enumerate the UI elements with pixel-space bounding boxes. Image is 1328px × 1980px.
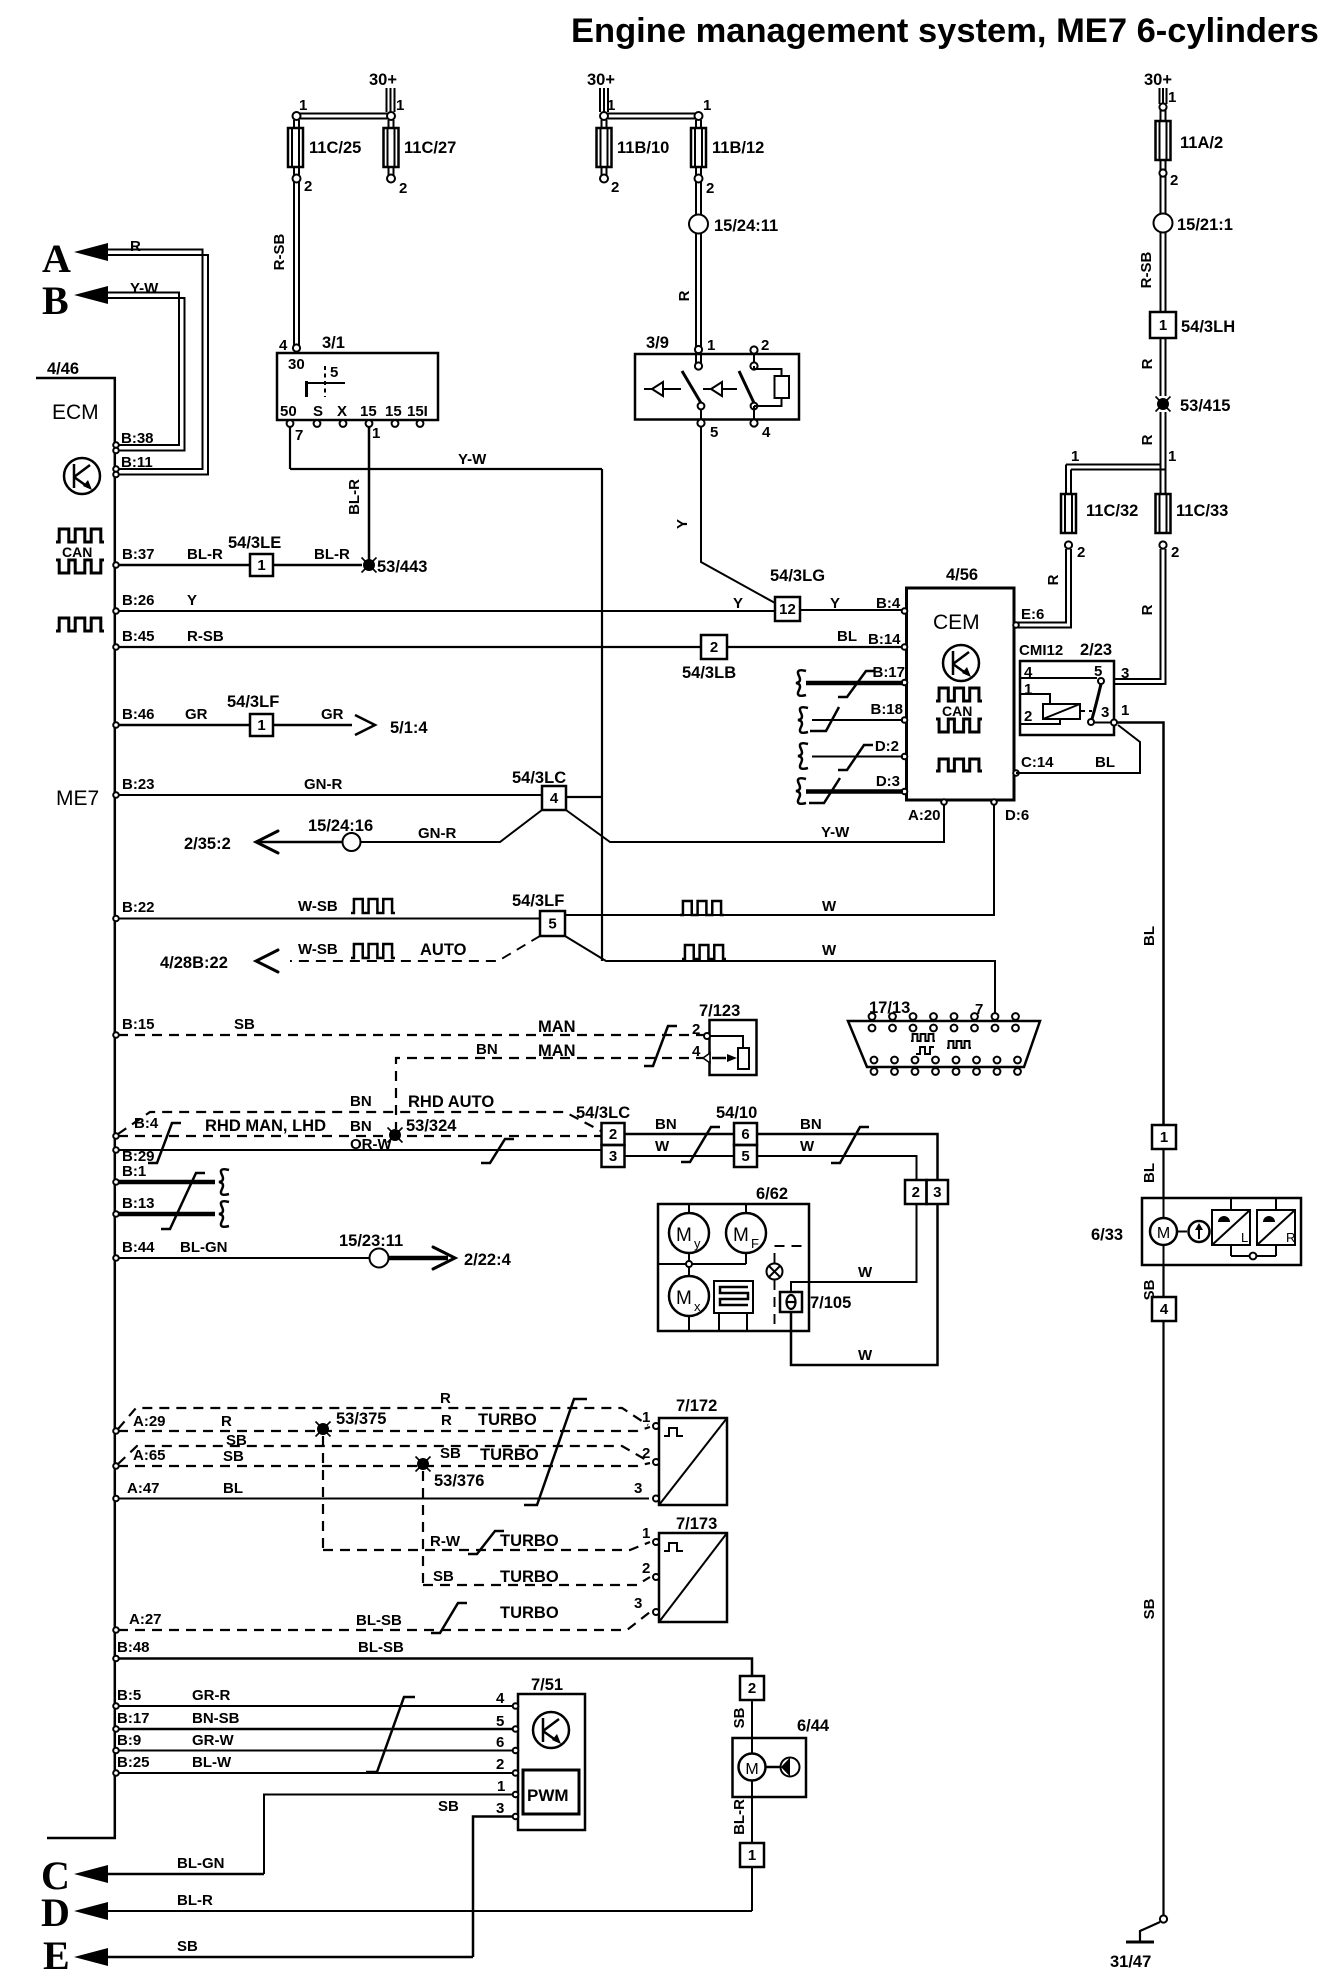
svg-text:12: 12 — [779, 601, 796, 618]
svg-text:BL: BL — [1141, 926, 1158, 946]
svg-text:7/123: 7/123 — [699, 1002, 740, 1020]
svg-text:4: 4 — [1160, 1301, 1169, 1318]
svg-text:54/3LH: 54/3LH — [1181, 318, 1235, 336]
dashed wire BN RHD AUTO — [118, 1112, 601, 1134]
motor Mx — [669, 1276, 709, 1316]
junction 53/443 — [363, 559, 375, 571]
svg-text:3/9: 3/9 — [646, 334, 669, 352]
svg-text:BN: BN — [655, 1116, 677, 1133]
cable marker — [644, 1026, 677, 1066]
svg-text:1: 1 — [1159, 317, 1167, 334]
svg-text:2/22:4: 2/22:4 — [464, 1251, 512, 1269]
cable markers — [148, 1123, 181, 1163]
wire BL-R B:37 to 54/3LE — [118, 564, 250, 567]
wire R-SB — [1161, 233, 1166, 313]
svg-text:SB: SB — [433, 1568, 454, 1585]
ECM K symbol — [64, 458, 100, 494]
wire BL-W B:25 — [118, 1772, 515, 1774]
svg-text:ME7: ME7 — [56, 787, 99, 810]
svg-text:x: x — [694, 1299, 701, 1314]
ground 31/47 — [1160, 1915, 1167, 1922]
key symbol — [305, 381, 308, 397]
svg-text:30+: 30+ — [587, 71, 615, 89]
svg-text:B:5: B:5 — [117, 1687, 141, 1704]
svg-text:5: 5 — [548, 916, 556, 933]
svg-text:GR-W: GR-W — [192, 1732, 234, 1749]
6/33 gauge symbol — [1189, 1221, 1210, 1242]
svg-text:SB: SB — [438, 1798, 459, 1815]
CEM CAN symbol — [936, 688, 982, 701]
svg-text:E: E — [43, 1933, 70, 1978]
svg-text:1: 1 — [372, 425, 380, 442]
svg-text:PWM: PWM — [527, 1786, 569, 1805]
svg-text:SB: SB — [223, 1448, 244, 1465]
svg-text:3/1: 3/1 — [322, 334, 345, 352]
wire BL relay pin 1 down — [1117, 723, 1164, 1126]
svg-text:B:37: B:37 — [122, 546, 155, 563]
connector (2) — [740, 1676, 764, 1700]
svg-text:W: W — [655, 1138, 670, 1155]
wire OR-W B:29 — [118, 1149, 602, 1151]
dashed wire SB A:65 — [118, 1463, 650, 1466]
svg-text:AUTO: AUTO — [420, 941, 467, 959]
svg-text:C:14: C:14 — [1021, 754, 1054, 771]
wire Y to CEM B:4 — [800, 609, 904, 611]
svg-text:D:3: D:3 — [876, 773, 900, 790]
CEM shielded stub D:2 — [812, 756, 903, 758]
wire BN right — [757, 1134, 938, 1180]
heater element — [714, 1281, 753, 1313]
svg-text:SB: SB — [1141, 1598, 1158, 1619]
fuse 11C/32 — [1061, 494, 1076, 533]
svg-text:A:20: A:20 — [908, 807, 941, 824]
svg-text:B:48: B:48 — [117, 1639, 150, 1656]
svg-text:B:1: B:1 — [122, 1163, 146, 1180]
svg-text:7/172: 7/172 — [676, 1397, 717, 1415]
svg-text:4: 4 — [279, 337, 288, 354]
fuse 11B/10 — [602, 120, 607, 128]
dashed wire BN MAN — [396, 1058, 706, 1129]
svg-text:6/44: 6/44 — [797, 1717, 830, 1735]
svg-text:Y-W: Y-W — [821, 824, 850, 841]
svg-text:B:15: B:15 — [122, 1016, 155, 1033]
svg-text:54/3LB: 54/3LB — [682, 664, 736, 682]
svg-text:2: 2 — [609, 1126, 617, 1143]
svg-text:Engine management system, ME7: Engine management system, ME7 6-cylinder… — [571, 12, 1319, 50]
svg-text:BL-GN: BL-GN — [177, 1855, 225, 1872]
svg-text:W-SB: W-SB — [298, 898, 338, 915]
dashed vertical from 53/375 — [322, 1436, 324, 1550]
wire R to fuse tops — [1066, 412, 1166, 494]
svg-text:E:6: E:6 — [1021, 606, 1044, 623]
svg-text:MAN: MAN — [538, 1018, 576, 1036]
dashed wire R A:29 — [118, 1427, 650, 1431]
svg-text:4: 4 — [550, 790, 559, 807]
dashed wire BN RHD MAN,LHD — [118, 1135, 602, 1137]
svg-text:Y-W: Y-W — [130, 280, 159, 297]
CEM left pins — [902, 608, 908, 614]
svg-text:S: S — [313, 403, 323, 420]
dashed wire BL-SB A:27 TURBO — [118, 1612, 650, 1630]
connector (1) — [740, 1843, 764, 1867]
svg-text:Y: Y — [733, 595, 743, 612]
svg-text:BL: BL — [1095, 754, 1115, 771]
svg-text:M: M — [676, 1225, 692, 1246]
svg-text:53/324: 53/324 — [406, 1117, 457, 1135]
svg-text:B:38: B:38 — [121, 430, 154, 447]
wire B:13 shielded stub — [118, 1212, 215, 1217]
svg-text:R: R — [221, 1413, 232, 1430]
svg-text:W: W — [858, 1347, 873, 1364]
svg-text:BN: BN — [350, 1093, 372, 1110]
connector (4) — [1152, 1297, 1176, 1321]
svg-text:B:14: B:14 — [868, 631, 901, 648]
svg-text:R: R — [1139, 434, 1156, 445]
wire BL A:47 — [118, 1498, 649, 1500]
svg-text:54/3LC: 54/3LC — [512, 769, 566, 787]
svg-text:2: 2 — [642, 1560, 650, 1577]
wire BN to 54/10 — [625, 1133, 735, 1136]
svg-text:Y: Y — [187, 592, 197, 609]
svg-text:3: 3 — [634, 1480, 642, 1497]
wire W right — [757, 1156, 917, 1180]
7/51 K symbol — [533, 1712, 569, 1748]
svg-text:1: 1 — [1121, 702, 1129, 719]
wire GR to 5/1:4 — [273, 724, 352, 727]
svg-text:15: 15 — [385, 403, 402, 420]
6/44 horn symbol — [766, 1766, 782, 1769]
relay pin 4 — [750, 419, 757, 426]
svg-text:4/28B:22: 4/28B:22 — [160, 954, 228, 972]
svg-text:TURBO: TURBO — [478, 1411, 537, 1429]
svg-text:1: 1 — [299, 97, 307, 114]
svg-text:3: 3 — [609, 1148, 617, 1165]
wire Y-W vertical from ignition — [601, 469, 603, 961]
wire Y-W to B — [105, 293, 185, 451]
svg-text:15/24:16: 15/24:16 — [308, 817, 373, 835]
connector 15/24:16 — [343, 833, 361, 851]
svg-text:11C/33: 11C/33 — [1176, 502, 1228, 520]
svg-text:ECM: ECM — [52, 401, 99, 424]
fuse 11C/27 — [389, 120, 394, 128]
svg-text:2: 2 — [611, 179, 619, 196]
svg-text:3: 3 — [496, 1800, 504, 1817]
svg-text:B:18: B:18 — [870, 701, 903, 718]
svg-text:BL-SB: BL-SB — [358, 1639, 404, 1656]
svg-text:4: 4 — [692, 1043, 701, 1060]
svg-text:CAN: CAN — [942, 703, 972, 719]
svg-text:11C/32: 11C/32 — [1086, 502, 1138, 520]
wire BL-R from 6/44 — [751, 1781, 753, 1844]
svg-text:1: 1 — [1071, 448, 1079, 465]
svg-text:R: R — [1045, 574, 1062, 585]
wire R to relay 3/9 — [696, 234, 701, 349]
svg-text:6/33: 6/33 — [1091, 1226, 1123, 1244]
svg-text:1: 1 — [748, 1847, 756, 1864]
svg-text:1: 1 — [703, 97, 711, 114]
fuse 11B/12 — [696, 120, 701, 128]
relay switch blades — [682, 371, 701, 403]
svg-text:1: 1 — [1160, 1129, 1168, 1146]
svg-text:53/443: 53/443 — [377, 558, 427, 576]
svg-text:11B/10: 11B/10 — [617, 139, 669, 157]
connector 54/3LF(1) — [250, 714, 273, 736]
6/62 internal wires — [658, 1253, 746, 1331]
svg-text:CMI12: CMI12 — [1019, 642, 1063, 659]
CEM shielded stub B:18 — [812, 719, 903, 721]
svg-text:6: 6 — [496, 1734, 504, 1751]
svg-text:M: M — [733, 1225, 749, 1246]
svg-text:31/47: 31/47 — [1110, 1953, 1151, 1971]
svg-text:4: 4 — [762, 424, 771, 441]
svg-text:53/376: 53/376 — [434, 1472, 484, 1490]
svg-text:BL-SB: BL-SB — [356, 1612, 402, 1629]
svg-text:B:44: B:44 — [122, 1239, 155, 1256]
svg-text:B:11: B:11 — [121, 454, 153, 471]
wire BL-SB B:48 to 6/44 — [118, 1659, 752, 1677]
dashed wire W-SB AUTO to 4/28B:22 — [290, 936, 540, 961]
dashed wire R upper — [118, 1408, 648, 1429]
svg-text:1: 1 — [642, 1525, 650, 1542]
svg-text:B:4: B:4 — [134, 1115, 159, 1132]
svg-text:A:65: A:65 — [133, 1447, 166, 1464]
svg-text:R: R — [440, 1390, 451, 1407]
svg-text:2: 2 — [706, 180, 714, 197]
svg-text:W: W — [800, 1138, 815, 1155]
svg-text:11B/12: 11B/12 — [712, 139, 764, 157]
svg-text:SB: SB — [177, 1938, 198, 1955]
svg-text:5: 5 — [330, 364, 338, 381]
wire B:1 shielded stub — [118, 1180, 215, 1185]
svg-text:D:6: D:6 — [1005, 807, 1029, 824]
svg-text:R: R — [1139, 604, 1156, 615]
svg-text:BL: BL — [1141, 1163, 1158, 1183]
svg-text:X: X — [337, 403, 347, 420]
svg-text:BL-GN: BL-GN — [180, 1239, 228, 1256]
wire W to 17/13 pin 7 — [565, 936, 995, 1014]
svg-text:15/21:1: 15/21:1 — [1177, 216, 1233, 234]
svg-text:2: 2 — [496, 1756, 504, 1773]
svg-text:7: 7 — [295, 427, 303, 444]
svg-text:B:46: B:46 — [122, 706, 155, 723]
svg-text:BL-R: BL-R — [731, 1799, 748, 1835]
dashed wire SB B:15 MAN — [118, 1034, 704, 1036]
svg-text:15/24:11: 15/24:11 — [714, 217, 778, 235]
svg-text:2: 2 — [1170, 172, 1178, 189]
wire W pair to 6/62 — [791, 1204, 917, 1292]
svg-text:R: R — [676, 290, 693, 301]
svg-text:2: 2 — [304, 178, 312, 195]
svg-text:54/3LF: 54/3LF — [512, 892, 564, 910]
CEM pin D:6 — [991, 799, 997, 805]
svg-text:R-SB: R-SB — [187, 628, 224, 645]
svg-text:54/10: 54/10 — [716, 1104, 757, 1122]
CEM shielded stub B:17 — [806, 681, 903, 686]
svg-text:1: 1 — [1168, 448, 1176, 465]
wire GR-R B:5 — [118, 1705, 515, 1707]
relay pin 2 — [750, 346, 757, 353]
svg-text:2: 2 — [912, 1184, 920, 1201]
CEM pin E:6 — [1013, 622, 1019, 628]
dashed wire SB upper — [118, 1446, 648, 1464]
junction 53/324 — [389, 1129, 401, 1141]
2/23 internal wiring — [1020, 677, 1097, 679]
svg-text:B: B — [42, 278, 69, 323]
wire Y B:26 to 54/3LG — [118, 610, 775, 612]
wire GN-R B:23 to 54/3LC — [118, 794, 542, 796]
svg-text:15I: 15I — [407, 403, 428, 420]
arrow to 2/22:4 — [389, 1256, 448, 1261]
wire Y-W — [290, 468, 602, 470]
svg-text:B:22: B:22 — [122, 899, 155, 916]
svg-text:54/3LG: 54/3LG — [770, 567, 825, 585]
wire Y-W to CEM A:20 — [566, 804, 944, 842]
wire BL-GN B:44 to 15/23:11 — [118, 1257, 369, 1259]
svg-text:A:27: A:27 — [129, 1611, 162, 1628]
svg-text:3: 3 — [1101, 704, 1109, 721]
wire R to A — [105, 250, 208, 475]
svg-text:TURBO: TURBO — [500, 1532, 559, 1550]
svg-text:11C/25: 11C/25 — [309, 139, 361, 157]
CEM pin C:14 — [1013, 770, 1019, 776]
svg-text:A:29: A:29 — [133, 1413, 166, 1430]
svg-text:BN-SB: BN-SB — [192, 1710, 240, 1727]
svg-text:RHD MAN, LHD: RHD MAN, LHD — [205, 1117, 326, 1135]
wire GR-W B:9 — [118, 1750, 515, 1752]
svg-text:BL-R: BL-R — [314, 546, 350, 563]
motor My — [688, 1204, 690, 1213]
wire BL C:14 to relay pin 1 — [1016, 725, 1140, 773]
arrow to 2/35:2 — [258, 841, 343, 844]
relay contact arrows — [644, 388, 681, 390]
svg-text:BN: BN — [476, 1041, 498, 1058]
wire W to 54/10 — [625, 1155, 735, 1157]
svg-text:1: 1 — [607, 97, 615, 114]
svg-text:3: 3 — [933, 1184, 941, 1201]
svg-text:1: 1 — [396, 97, 404, 114]
svg-text:Y-W: Y-W — [458, 451, 487, 468]
wire branch into 54/3LC — [566, 796, 602, 798]
wire SB to ground — [1162, 1321, 1164, 1915]
svg-text:50: 50 — [280, 403, 297, 420]
wire W-SB B:22 to 54/3LF(5) — [118, 918, 540, 920]
lamp symbol — [767, 1264, 783, 1280]
svg-text:2: 2 — [642, 1445, 650, 1462]
svg-text:SB: SB — [440, 1445, 461, 1462]
dashed wire R-W TURBO — [323, 1542, 650, 1550]
connector 15/23:11 — [370, 1249, 389, 1268]
svg-text:A:47: A:47 — [127, 1480, 160, 1497]
ECM pin terminals — [113, 442, 119, 448]
svg-text:5: 5 — [496, 1713, 504, 1730]
svg-text:BL-R: BL-R — [187, 546, 223, 563]
svg-text:1: 1 — [257, 717, 265, 734]
wire R fuse 11C/32 to CEM E:6 — [1016, 549, 1071, 628]
svg-text:1: 1 — [1168, 89, 1176, 106]
svg-text:M: M — [1157, 1225, 1170, 1242]
svg-text:B:9: B:9 — [117, 1732, 141, 1749]
svg-text:7/105: 7/105 — [810, 1294, 851, 1312]
svg-text:SB: SB — [731, 1707, 748, 1728]
wire pin1 to C — [264, 1795, 513, 1875]
wire GR B:46 to 54/3LF — [118, 724, 250, 727]
svg-text:y: y — [694, 1236, 701, 1251]
svg-text:W: W — [822, 942, 837, 959]
fuse 11C/33 — [1156, 494, 1171, 533]
connector (1) — [1152, 1125, 1176, 1149]
svg-text:B:17: B:17 — [117, 1710, 150, 1727]
svg-text:B:25: B:25 — [117, 1754, 150, 1771]
svg-text:TURBO: TURBO — [500, 1568, 559, 1586]
connector 54/3LH — [1150, 312, 1176, 338]
svg-text:1: 1 — [1024, 681, 1032, 698]
svg-text:5: 5 — [710, 424, 718, 441]
svg-text:MAN: MAN — [538, 1042, 576, 1060]
svg-text:1: 1 — [257, 557, 265, 574]
svg-text:15: 15 — [360, 403, 377, 420]
svg-text:2: 2 — [710, 639, 718, 656]
relay resistor — [775, 376, 790, 398]
svg-text:3: 3 — [1121, 665, 1129, 682]
svg-text:6: 6 — [741, 1126, 749, 1143]
svg-text:11C/27: 11C/27 — [404, 139, 456, 157]
svg-text:B:26: B:26 — [122, 592, 155, 609]
svg-text:R: R — [130, 238, 141, 255]
svg-text:D: D — [41, 1890, 70, 1935]
svg-text:2: 2 — [1077, 544, 1085, 561]
svg-text:30+: 30+ — [1144, 71, 1172, 89]
wire SB pin3 to E — [473, 1817, 513, 1958]
wire terminal 50 to Y-W — [289, 427, 291, 469]
6/33 motor M — [1163, 1198, 1165, 1218]
6/33 lamp L — [1230, 1198, 1232, 1256]
svg-text:GR: GR — [321, 706, 344, 723]
2/23 switch — [1098, 678, 1104, 684]
svg-text:W-SB: W-SB — [298, 941, 338, 958]
svg-text:GN-R: GN-R — [418, 825, 456, 842]
svg-text:2: 2 — [748, 1680, 756, 1697]
svg-text:2: 2 — [761, 337, 769, 354]
svg-text:SB: SB — [234, 1016, 255, 1033]
ECM CAN symbol — [56, 529, 104, 542]
svg-text:2: 2 — [1171, 544, 1179, 561]
svg-text:R-SB: R-SB — [271, 234, 288, 271]
wire BL to CEM B:14 — [727, 646, 904, 648]
svg-text:GN-R: GN-R — [304, 776, 342, 793]
connector 2 3 pair — [905, 1180, 927, 1204]
junction 53/376 — [417, 1458, 429, 1470]
motor MF — [745, 1204, 747, 1213]
svg-text:BL: BL — [223, 1480, 243, 1497]
svg-text:GR: GR — [185, 706, 208, 723]
7/51 pins — [513, 1703, 519, 1709]
svg-text:R-SB: R-SB — [1138, 252, 1155, 289]
wire R fuse 11C/33 to 2/23 — [1114, 549, 1166, 684]
wire W from CEM D:6 — [565, 804, 994, 915]
wire R-SB B:45 to 54/3LB — [118, 646, 701, 648]
svg-text:R: R — [1139, 358, 1156, 369]
svg-text:2/35:2: 2/35:2 — [184, 835, 231, 853]
svg-text:GR-R: GR-R — [192, 1687, 230, 1704]
svg-text:5/1:4: 5/1:4 — [390, 719, 428, 737]
svg-text:B:45: B:45 — [122, 628, 155, 645]
svg-text:R-W: R-W — [430, 1533, 461, 1550]
svg-text:2/23: 2/23 — [1080, 641, 1112, 659]
svg-text:F: F — [751, 1236, 759, 1251]
relay pin 5 — [700, 409, 702, 419]
connector 15/21:1 — [1161, 176, 1166, 214]
dashed wire SB TURBO — [423, 1577, 650, 1585]
